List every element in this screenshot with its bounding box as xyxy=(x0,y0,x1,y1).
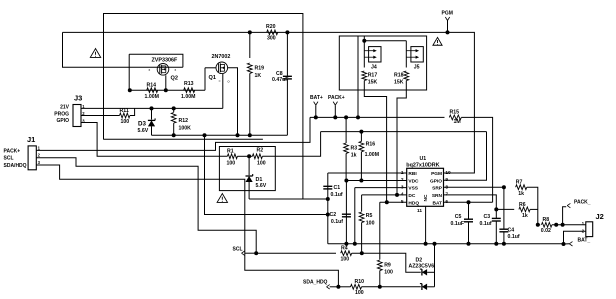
svg-text:1M: 1M xyxy=(454,119,461,125)
svg-text:1k: 1k xyxy=(518,191,524,197)
svg-text:PROG: PROG xyxy=(54,111,69,117)
svg-text:2N7002: 2N7002 xyxy=(212,54,231,60)
svg-text:PGM: PGM xyxy=(442,11,453,17)
svg-text:J3: J3 xyxy=(74,94,82,103)
svg-text:R2: R2 xyxy=(257,148,264,154)
svg-text:1.00M: 1.00M xyxy=(145,94,159,100)
svg-text:D1: D1 xyxy=(256,177,263,183)
svg-text:100: 100 xyxy=(227,161,236,167)
svg-text:C2: C2 xyxy=(330,212,337,218)
svg-text:R1: R1 xyxy=(227,149,234,155)
svg-text:HDQ: HDQ xyxy=(408,200,419,206)
svg-text:C3: C3 xyxy=(484,214,491,220)
svg-text:D3: D3 xyxy=(138,121,146,128)
svg-text:J4: J4 xyxy=(371,64,377,70)
svg-text:R5: R5 xyxy=(366,213,373,219)
svg-text:AZ23C5V6: AZ23C5V6 xyxy=(409,264,435,270)
svg-text:SRN: SRN xyxy=(432,193,443,199)
svg-text:ZVP3306F: ZVP3306F xyxy=(152,58,178,64)
svg-text:6: 6 xyxy=(445,199,448,205)
svg-text:100K: 100K xyxy=(179,125,192,131)
svg-text:=: = xyxy=(219,80,221,84)
svg-text:R6: R6 xyxy=(519,202,526,208)
svg-text:R13: R13 xyxy=(184,81,194,87)
svg-text:RBI: RBI xyxy=(408,171,417,177)
svg-text:Q2: Q2 xyxy=(171,76,178,82)
svg-text:100: 100 xyxy=(341,257,350,263)
svg-text:x: x xyxy=(149,68,151,72)
svg-text:1.00M: 1.00M xyxy=(365,152,379,158)
svg-text:5: 5 xyxy=(401,199,404,205)
svg-text:1k: 1k xyxy=(522,213,528,219)
svg-text:0.1uf: 0.1uf xyxy=(331,219,343,225)
svg-text:R10: R10 xyxy=(355,279,365,285)
svg-text:o: o xyxy=(228,80,230,84)
svg-text:R14: R14 xyxy=(147,83,157,89)
svg-text:BAT+: BAT+ xyxy=(310,95,323,101)
svg-text:R3: R3 xyxy=(351,145,358,151)
svg-text:PACK+: PACK+ xyxy=(328,95,345,101)
svg-text:R20: R20 xyxy=(266,24,276,30)
svg-text:PACK_: PACK_ xyxy=(574,199,591,205)
svg-text:3: 3 xyxy=(401,184,404,190)
svg-text:SRP: SRP xyxy=(432,186,443,192)
svg-text:D2: D2 xyxy=(416,257,423,263)
svg-text:7: 7 xyxy=(445,192,448,198)
svg-text:DC: DC xyxy=(408,193,415,199)
svg-text:GPIO: GPIO xyxy=(56,118,69,124)
svg-text:SDA_HDQ: SDA_HDQ xyxy=(303,280,328,286)
svg-text:x: x xyxy=(175,68,177,72)
svg-text:J5: J5 xyxy=(414,64,420,70)
svg-text:100: 100 xyxy=(366,220,375,226)
svg-text:R8: R8 xyxy=(543,217,550,223)
svg-text:300: 300 xyxy=(267,36,276,42)
svg-text:0.02: 0.02 xyxy=(541,228,551,234)
svg-text:SCL: SCL xyxy=(4,156,14,162)
svg-text:5.6V: 5.6V xyxy=(138,128,149,134)
svg-text:5.6V: 5.6V xyxy=(256,183,267,189)
svg-text:R15: R15 xyxy=(450,110,460,116)
svg-text:VSS: VSS xyxy=(408,186,418,192)
svg-text:4: 4 xyxy=(401,192,404,198)
svg-text:11: 11 xyxy=(417,208,422,214)
svg-text:BAT: BAT xyxy=(432,200,442,206)
svg-text:15K: 15K xyxy=(368,79,378,85)
svg-text:SDA/HDQ: SDA/HDQ xyxy=(4,163,27,169)
svg-text:BAT_: BAT_ xyxy=(578,237,591,243)
svg-text:R17: R17 xyxy=(368,73,378,79)
svg-text:15K: 15K xyxy=(394,79,404,85)
svg-text:GPIO: GPIO xyxy=(430,178,442,184)
svg-text:R18: R18 xyxy=(394,73,404,79)
svg-text:0.1uf: 0.1uf xyxy=(508,234,520,240)
svg-text:1K: 1K xyxy=(255,73,262,79)
svg-text:0.1uf: 0.1uf xyxy=(331,192,343,198)
svg-text:R19: R19 xyxy=(255,66,265,72)
svg-text:NC: NC xyxy=(423,194,429,201)
svg-text:10: 10 xyxy=(445,170,451,176)
svg-text:1: 1 xyxy=(401,170,404,176)
svg-text:PACK+: PACK+ xyxy=(4,148,21,154)
svg-text:R11: R11 xyxy=(120,108,129,114)
svg-text:100: 100 xyxy=(121,119,130,125)
svg-text:R7: R7 xyxy=(516,179,523,185)
svg-text:R12: R12 xyxy=(179,118,189,124)
svg-text:8: 8 xyxy=(445,184,448,190)
svg-text:U1: U1 xyxy=(420,156,427,162)
svg-text:0.47uF: 0.47uF xyxy=(272,77,288,83)
svg-text:R9: R9 xyxy=(384,263,391,269)
svg-text:R16: R16 xyxy=(366,142,376,148)
svg-text:bq27x10DRK: bq27x10DRK xyxy=(406,162,439,168)
svg-text:2: 2 xyxy=(401,177,404,183)
svg-text:C4: C4 xyxy=(508,227,515,233)
svg-text:C5: C5 xyxy=(455,214,462,220)
svg-text:VDC: VDC xyxy=(408,178,419,184)
svg-text:0.1uf: 0.1uf xyxy=(480,221,492,227)
svg-text:PGM: PGM xyxy=(431,171,442,177)
svg-text:J1: J1 xyxy=(27,135,35,144)
svg-text:100: 100 xyxy=(257,161,266,167)
svg-text:R4: R4 xyxy=(341,246,348,252)
svg-text:J2: J2 xyxy=(596,212,604,221)
svg-text:1.00M: 1.00M xyxy=(181,94,195,100)
svg-text:100: 100 xyxy=(355,290,364,296)
svg-text:C1: C1 xyxy=(334,185,341,191)
svg-text:9: 9 xyxy=(445,177,448,183)
svg-text:0.1uF: 0.1uF xyxy=(451,221,465,227)
svg-text:SCL: SCL xyxy=(233,247,243,253)
svg-text:Q1: Q1 xyxy=(209,75,216,81)
svg-text:21V: 21V xyxy=(60,105,70,111)
svg-text:100: 100 xyxy=(384,270,393,276)
svg-text:1k: 1k xyxy=(351,153,357,159)
